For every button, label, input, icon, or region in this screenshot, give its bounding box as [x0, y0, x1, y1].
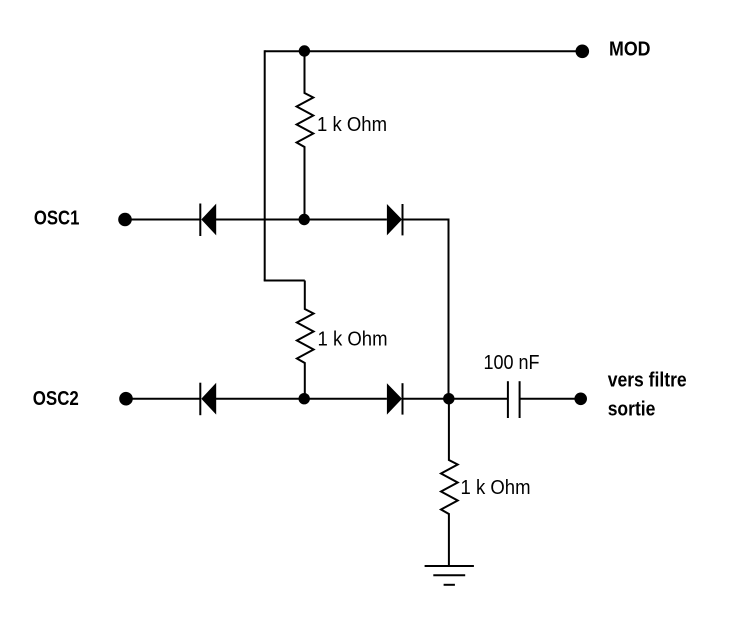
ground bar 2 [433, 574, 465, 576]
wire MOD bus top horizontal [265, 50, 582, 52]
junction node output [443, 393, 454, 404]
ground bar 1 [425, 565, 474, 567]
svg-text:sortie: sortie [608, 399, 656, 421]
capacitor C1 left plate [507, 381, 509, 418]
diode D1 triangle [201, 204, 216, 236]
diode D2 cathode bar [402, 204, 404, 235]
diode D2 triangle [387, 204, 402, 235]
diode D3 triangle [201, 383, 216, 415]
svg-text:1 k Ohm: 1 k Ohm [461, 477, 531, 499]
wire capacitor to output terminal [520, 398, 581, 400]
wire output node to capacitor left plate [449, 398, 508, 400]
diode D4 triangle [387, 383, 402, 414]
capacitor C1 right plate [519, 381, 521, 418]
terminal node OSC1 [118, 213, 132, 227]
wire D3 to D4 across junction [216, 398, 387, 400]
svg-text:100 nF: 100 nF [484, 352, 540, 374]
resistor R2 1 k Ohm [297, 281, 314, 399]
wire D4 to output node [403, 398, 449, 400]
resistor R3 1 k Ohm [441, 399, 458, 566]
wire OSC2 terminal to diode D3 [126, 398, 201, 400]
diode D4 cathode bar [402, 383, 404, 414]
junction node top of R1 [299, 45, 310, 56]
wire OSC1 terminal to diode D1 [125, 219, 200, 221]
svg-text:OSC2: OSC2 [33, 388, 79, 410]
svg-text:MOD: MOD [609, 39, 651, 61]
wire D1 to D2 across junction [216, 219, 387, 221]
svg-text:OSC1: OSC1 [34, 208, 80, 230]
terminal node MOD [576, 45, 590, 59]
svg-text:1 k Ohm: 1 k Ohm [317, 114, 387, 136]
diode D3 cathode bar [199, 383, 201, 416]
diode D1 cathode bar [199, 204, 201, 237]
wire elbow horizontal to R2 top [264, 280, 305, 282]
wire vertical drop from MOD bus left end [264, 50, 266, 280]
ground bar 3 [444, 584, 455, 586]
svg-text:vers filtre: vers filtre [608, 369, 687, 391]
resistor R1 1 k Ohm [297, 51, 314, 219]
wire D2 to right corner [403, 219, 449, 221]
wire right vertical bus down to output node [448, 219, 450, 399]
terminal node output [574, 393, 587, 406]
svg-text:1 k Ohm: 1 k Ohm [318, 328, 388, 350]
junction node OSC2 / R2 [299, 393, 310, 404]
terminal node OSC2 [119, 392, 133, 406]
junction node OSC1 / R1 [299, 214, 310, 225]
